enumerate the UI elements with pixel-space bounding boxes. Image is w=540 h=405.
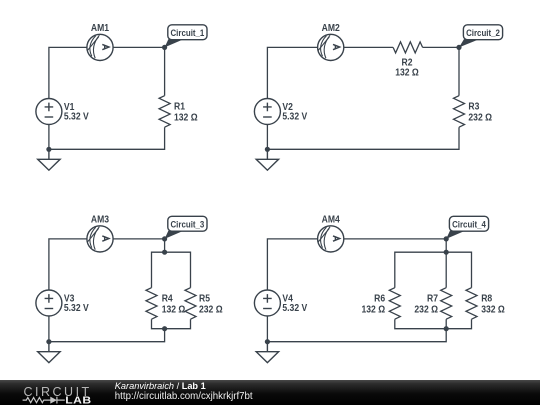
svg-text:R1: R1 xyxy=(174,101,185,112)
resistor R6 xyxy=(361,288,400,320)
junction xyxy=(46,339,51,344)
resistor R8 xyxy=(466,288,505,320)
svg-text:5.32 V: 5.32 V xyxy=(282,303,308,314)
svg-text:AM3: AM3 xyxy=(91,214,109,225)
svg-text:5.32 V: 5.32 V xyxy=(64,111,90,122)
wire xyxy=(113,46,165,48)
svg-text:R4: R4 xyxy=(162,293,174,304)
svg-text:Circuit_2: Circuit_2 xyxy=(466,28,500,39)
voltage source V2 xyxy=(254,99,280,125)
junction xyxy=(444,236,449,241)
junction xyxy=(265,147,270,152)
svg-text:AM4: AM4 xyxy=(322,214,341,225)
svg-text:R8: R8 xyxy=(481,293,492,304)
node Circuit_1 flag xyxy=(165,25,207,48)
wire xyxy=(49,329,165,342)
junction xyxy=(162,236,167,241)
ground xyxy=(38,342,60,363)
wire xyxy=(267,239,317,290)
wire xyxy=(445,252,447,288)
wire xyxy=(344,238,446,240)
node Circuit_3 flag xyxy=(165,216,207,239)
ground xyxy=(256,149,278,170)
resistor R2 xyxy=(393,42,422,78)
svg-text:232 Ω: 232 Ω xyxy=(468,112,492,123)
wire xyxy=(48,316,50,342)
node Circuit_2 flag xyxy=(459,25,503,48)
svg-text:Circuit_3: Circuit_3 xyxy=(170,219,204,230)
wire xyxy=(152,252,191,288)
wire xyxy=(49,127,165,149)
svg-text:5.32 V: 5.32 V xyxy=(64,303,90,314)
logo diode triangle xyxy=(50,397,57,404)
wire xyxy=(395,319,472,329)
wire xyxy=(48,125,50,150)
svg-text:5.32 V: 5.32 V xyxy=(282,111,308,122)
svg-text:332 Ω: 332 Ω xyxy=(481,304,505,315)
node Circuit_4 flag xyxy=(446,216,488,239)
svg-text:R6: R6 xyxy=(374,293,385,304)
junction xyxy=(46,147,51,152)
wire xyxy=(49,239,87,290)
wire xyxy=(164,239,166,252)
svg-text:http://circuitlab.com/cxjhkrkj: http://circuitlab.com/cxjhkrkjrf7bt xyxy=(115,391,253,402)
wire xyxy=(423,46,459,48)
svg-text:Karanvirbraich / Lab 1: Karanvirbraich / Lab 1 xyxy=(115,381,206,391)
wire xyxy=(344,46,393,48)
wire xyxy=(445,319,447,329)
resistor R1 xyxy=(159,96,198,128)
voltage source V4 xyxy=(254,290,280,316)
wire xyxy=(164,47,166,95)
ground xyxy=(38,149,60,170)
junction xyxy=(456,45,461,50)
junction xyxy=(444,250,449,255)
resistor R4 xyxy=(146,288,186,320)
voltage source V3 xyxy=(36,290,62,316)
wire xyxy=(266,125,268,150)
svg-text:R7: R7 xyxy=(427,293,438,304)
ammeter AM2 xyxy=(318,34,344,60)
footer bar xyxy=(0,380,540,405)
voltage source V1 xyxy=(36,99,62,125)
svg-text:AM2: AM2 xyxy=(322,23,340,34)
svg-text:Circuit_1: Circuit_1 xyxy=(170,28,204,39)
wire xyxy=(458,47,460,95)
wire xyxy=(395,252,472,288)
svg-text:AM1: AM1 xyxy=(91,23,109,34)
junction xyxy=(162,250,167,255)
junction xyxy=(162,326,167,331)
wire xyxy=(445,239,447,252)
resistor R5 xyxy=(185,288,223,320)
wire xyxy=(267,127,459,149)
wire xyxy=(266,316,268,342)
wire xyxy=(49,47,87,98)
ammeter AM1 xyxy=(87,34,113,60)
svg-text:132 Ω: 132 Ω xyxy=(395,67,419,78)
junction xyxy=(265,339,270,344)
ammeter AM4 xyxy=(318,226,344,252)
svg-text:R5: R5 xyxy=(199,293,210,304)
svg-text:R3: R3 xyxy=(468,101,479,112)
wire xyxy=(113,238,165,240)
svg-text:Circuit_4: Circuit_4 xyxy=(452,219,486,230)
junction xyxy=(444,326,449,331)
wire xyxy=(267,329,446,342)
resistor R7 xyxy=(414,288,451,320)
svg-text:132 Ω: 132 Ω xyxy=(361,304,385,315)
svg-text:LAB: LAB xyxy=(65,395,91,405)
svg-text:232 Ω: 232 Ω xyxy=(414,304,438,315)
ground xyxy=(256,342,278,363)
ammeter AM3 xyxy=(87,226,113,252)
wire xyxy=(267,47,317,98)
wire xyxy=(152,319,191,329)
svg-text:132 Ω: 132 Ω xyxy=(162,304,186,315)
svg-text:232 Ω: 232 Ω xyxy=(199,304,223,315)
junction xyxy=(162,45,167,50)
svg-text:132 Ω: 132 Ω xyxy=(174,112,198,123)
resistor R3 xyxy=(454,96,493,128)
logo schematic: resistor and diode xyxy=(23,397,65,404)
